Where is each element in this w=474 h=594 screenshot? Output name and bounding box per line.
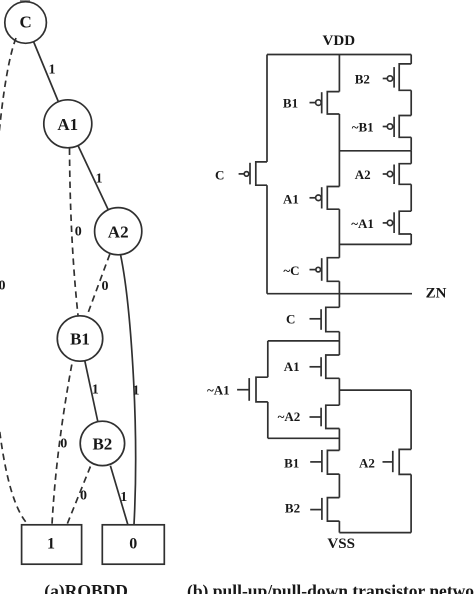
PMOS A2 gate lead	[383, 173, 388, 175]
svg-text:C: C	[286, 312, 295, 327]
wire right branch A2 to ~A1	[410, 184, 412, 211]
node A2 (BDD decision node)	[95, 208, 142, 255]
wire middle pull-down ~A2 to J2	[338, 429, 340, 451]
svg-text:1: 1	[92, 383, 99, 398]
svg-text:~C: ~C	[283, 263, 299, 278]
wire right branch ~B1 to junction	[410, 137, 412, 151]
PMOS ~C gate lead	[310, 269, 316, 271]
PMOS B1 gate bar	[321, 92, 323, 113]
PMOS B2 gate bar	[393, 67, 395, 88]
NMOS C (pull-down): source/drain path	[326, 307, 340, 331]
edge A1->B1 (0, dashed)	[70, 149, 79, 316]
edge A2->B1 (0, dashed)	[87, 254, 110, 317]
NMOS B2 gate bar	[321, 498, 323, 520]
svg-text:A2: A2	[108, 222, 129, 241]
wire junction J1	[268, 340, 340, 342]
PMOS B1 (pull-up): source/drain path	[327, 92, 339, 114]
PMOS ~B1 gate lead	[383, 126, 388, 128]
PMOS A1 (pull-up): source/drain path	[327, 187, 339, 210]
wire right branch ~A1 to bottom junction	[410, 234, 412, 244]
PMOS A2 (pull-up): source/drain path	[399, 164, 411, 185]
PMOS ~B1 (pull-up): source/drain path	[399, 116, 411, 138]
PMOS ~B1 gate bar	[393, 117, 395, 137]
wire right pull-down branch upper	[410, 390, 412, 449]
wire bottom junction of right pull-up branch	[339, 243, 411, 245]
svg-text:0: 0	[0, 279, 6, 294]
NMOS ~A2 gate bar	[320, 408, 322, 427]
PMOS C gate bubble	[244, 172, 249, 177]
PMOS B2 gate lead	[383, 78, 388, 80]
wire right branch junction to A2	[410, 151, 412, 164]
NMOS B1 gate lead	[310, 461, 322, 463]
wire junction J2	[268, 437, 340, 439]
svg-text:(a)ROBDD: (a)ROBDD	[44, 581, 128, 594]
svg-text:B2: B2	[92, 435, 112, 454]
PMOS B2 gate bubble	[387, 76, 392, 81]
wire middle pull-down B2 to VSS	[338, 521, 340, 533]
svg-text:~A1: ~A1	[351, 216, 374, 231]
NMOS A1 (pull-down): source/drain path	[326, 355, 340, 378]
PMOS ~A1 gate bubble	[387, 220, 392, 225]
wire right branch B2 to ~B1	[410, 90, 412, 115]
PMOS A2 gate bubble	[387, 171, 392, 176]
wire VDD top rail	[267, 54, 411, 56]
svg-text:1: 1	[96, 172, 103, 187]
stray gray mark above node C	[20, 0, 30, 3]
svg-text:A1: A1	[284, 359, 300, 374]
ZN output rail	[267, 293, 412, 295]
node B2 (BDD decision node)	[80, 421, 124, 465]
wire middle pull-down A1 to M junction	[338, 378, 340, 405]
wire right pull-down branch lower	[410, 474, 412, 532]
NMOS B2 gate lead	[310, 509, 322, 511]
wire middle pull-up branch: VDD to B1	[338, 55, 340, 92]
svg-text:0: 0	[75, 224, 82, 239]
svg-text:VDD: VDD	[323, 33, 356, 49]
svg-text:VSS: VSS	[327, 536, 355, 552]
wire middle branch A1 to ~C	[338, 209, 340, 258]
NMOS A1 gate bar	[320, 357, 322, 376]
PMOS C (pull-up): source/drain path	[256, 162, 267, 185]
NMOS ~A1 gate lead	[237, 389, 249, 391]
svg-text:A1: A1	[283, 192, 299, 207]
NMOS A1 gate lead	[310, 366, 322, 368]
edge B1->B2 (1, solid)	[85, 361, 98, 422]
PMOS ~C gate bar	[321, 258, 323, 281]
edge B2->0 (1, solid)	[110, 466, 127, 525]
edge B1->1 (0, dashed curve)	[52, 365, 72, 525]
NMOS ~A2 (pull-down): source/drain path	[326, 405, 340, 428]
NMOS A2 gate lead	[383, 461, 393, 463]
wire middle pull-down J1 to A1	[338, 341, 340, 355]
PMOS A1 gate bubble	[316, 195, 322, 201]
PMOS ~C gate bubble	[316, 267, 321, 272]
wire left pull-up branch lower	[266, 185, 268, 294]
wire junction between B-group and A-group	[339, 150, 411, 152]
svg-text:1: 1	[120, 490, 127, 505]
terminal box 0	[102, 525, 164, 564]
svg-text:A2: A2	[359, 456, 375, 471]
PMOS A2 gate bar	[393, 165, 395, 185]
wire ZN to NMOS C	[338, 294, 340, 308]
NMOS A2 gate bar	[392, 451, 394, 472]
edge A1->A2 (1, solid)	[78, 146, 108, 210]
svg-text:~B1: ~B1	[352, 119, 374, 134]
PMOS A1 gate bar	[321, 187, 323, 208]
svg-text:~A1: ~A1	[207, 382, 230, 397]
PMOS ~C (pull-up): source/drain path	[327, 258, 339, 282]
NMOS B2 (pull-down): source/drain path	[327, 498, 339, 521]
svg-text:0: 0	[80, 488, 87, 503]
PMOS ~A1 (pull-up): source/drain path	[399, 211, 411, 234]
NMOS B1 (pull-down): source/drain path	[327, 450, 339, 474]
NMOS C gate bar	[320, 309, 322, 330]
wire left pull-up branch upper	[266, 55, 268, 162]
svg-text:A1: A1	[57, 115, 78, 134]
svg-text:B1: B1	[284, 456, 299, 471]
PMOS C gate bar	[249, 163, 251, 185]
PMOS A1 gate lead	[310, 197, 316, 199]
PMOS C gate lead	[239, 173, 245, 175]
PMOS ~A1 gate bar	[393, 212, 395, 233]
svg-text:0: 0	[129, 536, 137, 553]
PMOS B1 gate bubble	[316, 100, 322, 106]
svg-text:B2: B2	[355, 72, 370, 87]
edge C->1 (0, dashed curve)	[0, 38, 28, 525]
svg-text:(b) pull-up/pull-down transist: (b) pull-up/pull-down transistor network	[187, 581, 474, 594]
NMOS ~A2 gate lead	[310, 416, 322, 418]
wire right pull-up branch: VDD to B2	[410, 55, 412, 64]
NMOS A2 (pull-down): source/drain path	[399, 449, 411, 474]
wire junction M to right branch	[339, 389, 411, 391]
NMOS B1 gate bar	[321, 450, 323, 472]
wire middle branch ~C to ZN	[338, 281, 340, 293]
svg-text:C: C	[215, 167, 224, 182]
edge B2->1 (0, dashed)	[67, 467, 90, 525]
PMOS B1 gate lead	[310, 102, 316, 104]
svg-text:B1: B1	[283, 96, 298, 111]
node C (BDD decision node)	[5, 2, 47, 44]
svg-text:B2: B2	[285, 501, 300, 516]
PMOS ~B1 gate bubble	[387, 124, 392, 129]
wire NMOS C to junction J1	[338, 332, 340, 341]
VSS rail	[339, 532, 411, 534]
terminal box 1	[22, 525, 82, 564]
node B1 (BDD decision node)	[57, 316, 102, 361]
svg-text:1: 1	[47, 536, 55, 553]
svg-text:0: 0	[102, 279, 109, 294]
node A1 (BDD decision node)	[44, 100, 92, 148]
edge C->A1 (1, solid)	[34, 42, 59, 103]
edge A2->0 (1, solid curve)	[121, 255, 136, 525]
wire middle branch B1 to A1	[338, 114, 340, 187]
svg-text:1: 1	[49, 63, 56, 78]
wire left pull-down branch lower	[267, 402, 269, 438]
NMOS ~A1 gate bar	[248, 378, 250, 401]
wire left pull-down branch upper	[267, 341, 269, 377]
NMOS C gate lead	[310, 318, 322, 320]
svg-text:ZN: ZN	[426, 286, 447, 302]
svg-text:1: 1	[133, 384, 140, 399]
wire middle pull-down B1 to B2	[338, 474, 340, 498]
svg-text:~A2: ~A2	[278, 409, 301, 424]
svg-text:A2: A2	[355, 167, 371, 182]
PMOS ~A1 gate lead	[383, 222, 388, 224]
PMOS B2 (pull-up): source/drain path	[399, 64, 411, 90]
svg-text:C: C	[19, 13, 31, 32]
svg-text:0: 0	[60, 437, 67, 452]
NMOS ~A1 (pull-down): source/drain path	[256, 377, 268, 402]
svg-text:B1: B1	[70, 330, 90, 349]
